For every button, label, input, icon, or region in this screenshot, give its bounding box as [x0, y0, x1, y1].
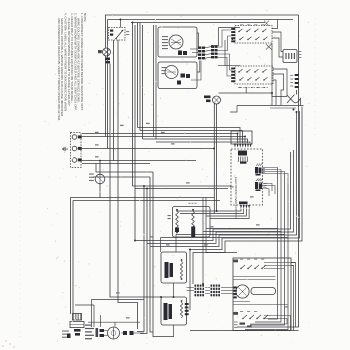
- wire right bundle R7: [150, 111, 297, 247]
- oven box bottom line: [190, 330, 299, 332]
- wire row 186: [133, 185, 232, 187]
- wire links P1: [205, 47, 211, 48]
- wire row 177: [93, 176, 150, 178]
- junction dots below fuse: [293, 109, 295, 111]
- connector strip left of SW1: [231, 28, 235, 30]
- wire oven light to ERC: [219, 92, 273, 94]
- surface switch SW2 dashed box: [235, 66, 273, 84]
- surface element E1 circle: [169, 35, 183, 49]
- wire oven light drop pair: [213, 104, 215, 214]
- wire frame seg 1: [219, 27, 241, 29]
- motor M1 left connectors: [100, 329, 105, 332]
- oven box bottom labels: [240, 323, 246, 325]
- wire trunk E: [113, 40, 115, 161]
- wire trunk B: [107, 20, 109, 149]
- wire trunk C: [110, 64, 161, 298]
- wire feed row 130: [140, 131, 243, 144]
- wire top rail 1: [105, 14, 299, 16]
- wire fan drop 284: [250, 174, 285, 325]
- scan noise column left: [19, 125, 21, 338]
- wire oven right 1: [291, 263, 296, 328]
- wire L1 feed a: [82, 134, 238, 144]
- terminal strip box: [70, 322, 84, 328]
- lamp L1 label: [98, 50, 102, 53]
- wire L1 feed b: [82, 137, 245, 144]
- wire stack drop B: [72, 201, 74, 315]
- connector below lamp L1: [105, 58, 110, 61]
- wire drop 160: [160, 238, 162, 253]
- wire SW1 out 2: [272, 32, 283, 52]
- bake switch labels: [234, 260, 239, 263]
- wire bottom drop 100: [100, 315, 102, 327]
- wire right bundle R6: [147, 150, 294, 244]
- wire SW1 out 3: [272, 38, 283, 57]
- wire fan drop 288: [245, 184, 288, 330]
- wire row 172: [96, 164, 153, 173]
- wire L2 feed a: [82, 160, 196, 162]
- wire bottom row 305: [75, 304, 94, 306]
- coil R bake: [192, 211, 195, 227]
- wire L2 feed b: [82, 163, 150, 165]
- broil switch contacts: [243, 315, 247, 319]
- bake switch contacts: [241, 265, 245, 269]
- ERC dashed box: [231, 149, 263, 205]
- SW2 contacts row 2: [240, 77, 244, 80]
- ERC connector box: [231, 131, 252, 144]
- wire row 197: [71, 197, 215, 199]
- wire frame seg 3: [224, 40, 226, 66]
- wire top rail 2: [108, 19, 294, 21]
- wire links P4-right: [221, 287, 237, 289]
- wire stack drop A: [70, 198, 72, 315]
- connector cluster under E1: [178, 51, 182, 56]
- connector strip P1 left: [198, 47, 201, 49]
- surface element E2 label: [162, 67, 167, 68]
- oven sensor label: [290, 75, 293, 76]
- mid rows 276: [233, 276, 276, 278]
- wire bottom row 299: [92, 298, 145, 300]
- wire trunk A: [105, 56, 107, 137]
- wire rail 105: [237, 105, 304, 107]
- oven box left pin strip: [233, 287, 236, 289]
- ERC pin cluster A: [255, 167, 258, 174]
- wire motor top: [114, 322, 116, 326]
- wire trunk K2 drop: [140, 189, 147, 334]
- wire cross row 234: [176, 234, 285, 236]
- svg-text:AND DANGEROUS OPERATION. VERIF: AND DANGEROUS OPERATION. VERIFY PROPER O…: [57, 18, 61, 121]
- oven sensor connector pins: [295, 74, 299, 76]
- wire N feed: [82, 148, 214, 150]
- wire trunk D: [118, 40, 138, 329]
- wire bottom drop 91: [91, 299, 93, 327]
- wire SW2 out 3: [273, 80, 276, 106]
- ERC pin cluster B fan: [263, 184, 272, 192]
- surface switch SW1 dashed box: [235, 26, 272, 44]
- wire top rail 3: [131, 22, 265, 24]
- wire right edge and bottom-right corner: [237, 15, 299, 327]
- junction dot P1: [232, 38, 234, 40]
- relay box K2: [161, 297, 187, 325]
- motor M1: [108, 327, 120, 339]
- door switch S1 dashed box: [109, 28, 126, 41]
- wire top-left corner down: [105, 15, 107, 48]
- wire right bundle R5: [135, 152, 291, 241]
- stack lower blob: [67, 334, 71, 339]
- element box B3: [173, 207, 211, 238]
- paper speckle noise: [126, 59, 129, 62]
- wire SW2 out 2: [273, 74, 284, 106]
- wire feed row 142: [156, 142, 250, 143]
- wire right bundle R9: [193, 107, 302, 285]
- wire bottom row 322: [88, 321, 140, 323]
- broil switch out wires: [264, 316, 291, 331]
- ERC bottom wires: [176, 209, 241, 211]
- wire through 203: [202, 198, 204, 285]
- ground symbol: [65, 148, 68, 150]
- wire into door switch: [119, 20, 121, 28]
- wire bottom drop 94: [93, 305, 95, 327]
- wire SW1 up to rail: [272, 20, 278, 29]
- ERC pin cluster B: [255, 182, 258, 189]
- relay K2 right pins: [185, 303, 189, 305]
- wire drop 176: [175, 235, 177, 253]
- wire links P3-P4: [205, 287, 210, 289]
- stack label text: [62, 331, 69, 332]
- fuse block hatched box: [73, 314, 82, 321]
- terminal stud L2: [72, 158, 77, 163]
- wire crossover diagonals: [264, 21, 269, 27]
- surface element E2 circle: [165, 66, 178, 79]
- relay K2 contents: [164, 303, 168, 320]
- pin grid connector P3: [195, 285, 197, 287]
- oven lamp L3 label: [89, 174, 94, 175]
- wire fan drop 277: [268, 168, 278, 319]
- wire feed row 127: [138, 128, 241, 144]
- SW1 contacts row 1: [239, 29, 243, 32]
- broil switch labels: [234, 312, 239, 315]
- notes text block: [57, 13, 87, 121]
- connector strip left of SW2: [231, 68, 235, 70]
- wire K2 bottom: [173, 325, 175, 337]
- wire rail 105 hook: [230, 106, 237, 113]
- wire lamp L3 bottom: [99, 184, 101, 198]
- wire fan drop 281: [255, 171, 281, 322]
- ERC pin cluster A fan: [262, 167, 278, 170]
- wire trunk I: [139, 23, 141, 131]
- door switch label: [126, 31, 129, 32]
- oven light L2 circle: [213, 96, 221, 104]
- wire trunk H: [137, 23, 139, 128]
- relay box K1: [161, 252, 187, 283]
- wire vertical x272: [271, 43, 273, 106]
- junction dots: [119, 19, 121, 21]
- wire through 206: [206, 198, 237, 253]
- wire trunk K1 drop: [137, 186, 144, 332]
- wire row 188: [135, 188, 228, 190]
- mid rows 301: [233, 301, 250, 303]
- lamp L1 circle: [103, 48, 111, 56]
- TOD internal pins: [285, 53, 286, 59]
- junction lamp L3: [99, 160, 101, 162]
- coil labels: [189, 203, 191, 204]
- wire mid trunk K3: [150, 177, 153, 332]
- wire trunk G2: [134, 25, 136, 241]
- terminal block dashed box: [71, 133, 82, 168]
- SW1 contacts row 2: [240, 37, 244, 40]
- wire mid trunk K4: [153, 172, 174, 337]
- wire frame seg 2: [211, 28, 219, 46]
- oven light connector: [204, 96, 211, 99]
- terminal stud N: [72, 146, 77, 151]
- wire box B1 to strip: [197, 33, 199, 47]
- oven lamp L3 circle: [95, 174, 105, 184]
- stack connector blobs: [74, 329, 81, 332]
- coil R broil: [176, 211, 179, 232]
- surface element box B1: [158, 27, 197, 57]
- wire SW2 out 1: [273, 69, 287, 97]
- motor M1 right connectors: [123, 331, 127, 335]
- wire right bundle R8: [190, 111, 300, 310]
- bake switch out wires: [264, 262, 296, 264]
- wire mid trunk K6: [155, 25, 157, 139]
- wire links P3-left: [187, 287, 195, 289]
- wire row 200: [73, 200, 220, 202]
- fuse crossing F1: [272, 93, 287, 97]
- label P2 near element box: [168, 215, 171, 216]
- wire trunk G: [132, 23, 134, 187]
- scan noise column right: [314, 18, 316, 140]
- connector cluster right of E2: [181, 74, 186, 78]
- wire oven right 2: [291, 266, 294, 331]
- ERC pin row: [234, 144, 236, 148]
- ERC transformer cluster: [238, 151, 247, 156]
- TOD label: [299, 51, 302, 52]
- convection motor M2: [236, 285, 249, 298]
- door switch S1 contacts: [110, 30, 113, 32]
- pin grid connector P4: [211, 285, 213, 287]
- wire cross row 228: [206, 228, 278, 230]
- wire cross row 231: [203, 231, 281, 233]
- motor cluster text: [85, 325, 92, 326]
- surface element E1 label: [162, 36, 168, 37]
- wires into P1 left: [190, 48, 198, 50]
- wire frame seg 4: [218, 65, 240, 67]
- wire colour labels: [95, 132, 99, 133]
- relay K1 contents: [165, 262, 169, 278]
- SW2 contacts row 1: [239, 69, 243, 72]
- connector strip P1 right: [211, 46, 214, 48]
- ERC bottom pins: [239, 202, 248, 205]
- wire lamp L3 top: [99, 161, 101, 175]
- scan noise bottom left dots: [5, 340, 6, 341]
- wire trunk J: [142, 25, 144, 139]
- relay box TOD: [283, 50, 297, 63]
- SW1 internal labels: [240, 23, 244, 26]
- wire rail 108: [270, 107, 296, 109]
- wires P1 to SW1: [218, 30, 232, 47]
- oven element bar: [251, 288, 276, 295]
- oven box outline: [233, 258, 291, 331]
- wire cross row 237: [161, 237, 289, 239]
- wire K1 to K2: [173, 283, 175, 297]
- surface element box B2: [158, 62, 197, 89]
- wire mid trunk K5: [153, 25, 155, 137]
- terminal stud L1: [72, 135, 77, 140]
- SW2 lower dashed row: [238, 87, 268, 89]
- wire feed row 139: [143, 139, 248, 143]
